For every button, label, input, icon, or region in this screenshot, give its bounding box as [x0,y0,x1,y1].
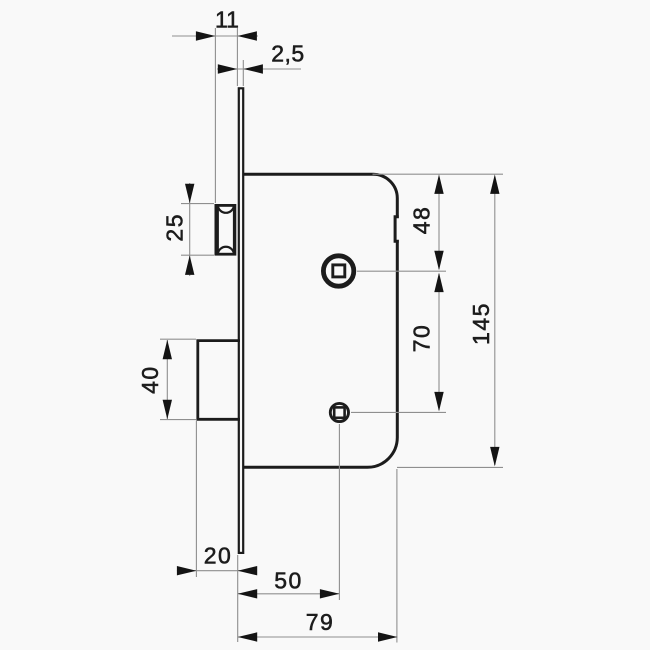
dimension 79 line [238,632,398,641]
dimension 70 line [434,273,443,412]
extension line spindle hole centre right (for dims 48/70) [357,270,446,272]
svg-text:25: 25 [162,213,188,242]
dimension 20 line [177,566,257,575]
extension line deadbolt left down (for dim 20) [195,421,197,577]
dimension 145 line [490,174,499,466]
dimension 48 line [434,174,443,270]
extension line latch bottom left (for dim 25) [181,254,214,256]
svg-text:11: 11 [215,7,239,33]
extension line faceplate left top (for dim 11 / 2,5) [236,28,238,86]
extension line lower hole centre right (for dim 70) [351,411,446,413]
svg-text:70: 70 [409,324,435,353]
dimension 50 line [238,589,340,598]
svg-text:79: 79 [306,609,335,635]
extension line deadbolt top left (for dim 40) [160,338,196,340]
dimension 25 line [185,183,194,276]
dimension 11 line [172,31,258,40]
svg-text:40: 40 [137,365,163,394]
extension line deadbolt bottom left (for dim 40) [160,419,196,421]
dimension 40 line [163,340,172,419]
extension line lower hole down (for dim 50) [338,424,340,600]
faceplate [239,88,243,553]
svg-text:20: 20 [204,543,233,569]
extension line latch top left (for dim 25) [181,203,214,205]
deadbolt [198,341,240,420]
svg-text:2,5: 2,5 [271,41,304,67]
extension line body right down (for dim 79) [396,469,398,643]
extension line faceplate left down (for dims 20/50/79) [237,555,239,642]
extension line latch left (for dim 11) [214,28,216,203]
dimension 2,5 line [217,64,301,73]
latch bolt [216,205,235,254]
extension line body top right (for dims 48/145) [373,173,504,175]
svg-text:145: 145 [468,302,494,345]
extension line faceplate right top (for dim 2,5) [242,60,244,86]
lower square hole [330,403,348,421]
spindle square hole [323,256,353,286]
extension line body bottom right (for dim 145) [397,466,503,468]
svg-text:48: 48 [409,206,435,235]
svg-text:50: 50 [274,568,303,594]
lock body outline [244,174,399,467]
